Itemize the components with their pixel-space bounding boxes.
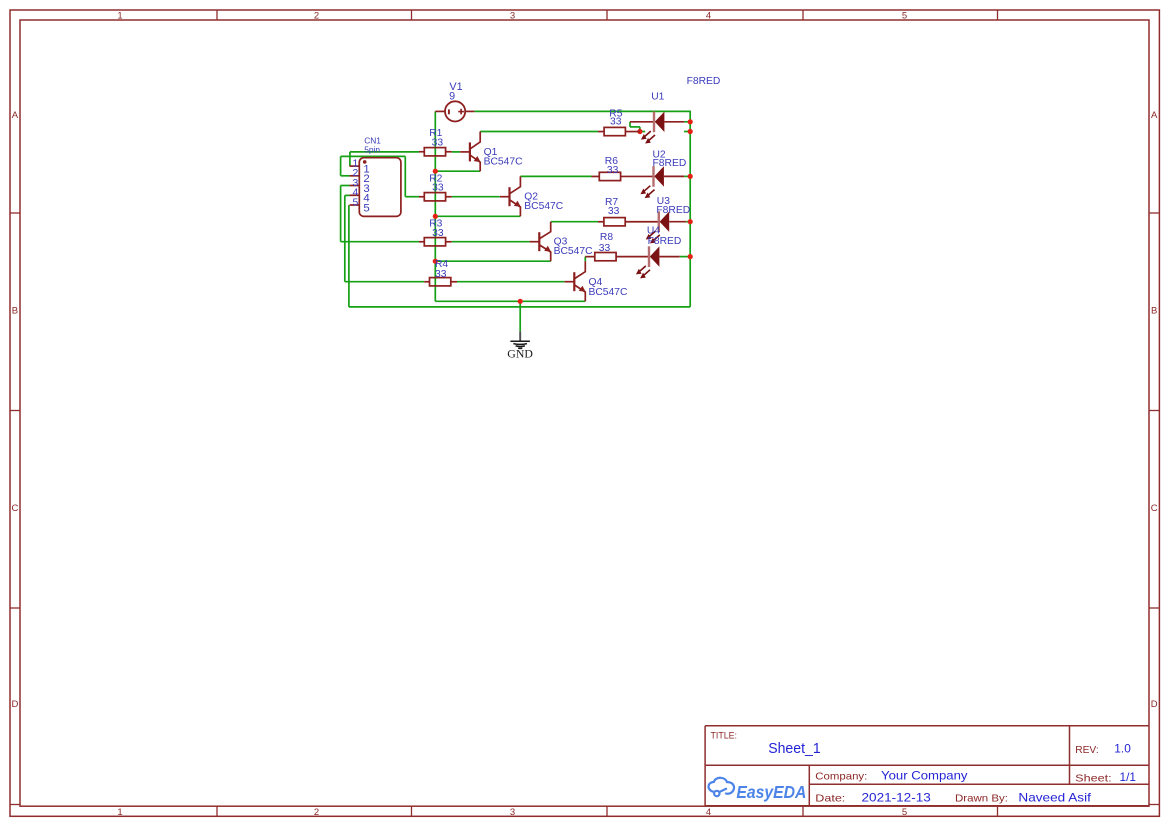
wire R3 to Q3 base: [452, 241, 530, 243]
LED U1 emission arrows: [642, 131, 651, 139]
svg-text:33: 33: [610, 116, 622, 127]
svg-text:U4: U4: [647, 225, 660, 236]
resistor R8 right pin: [616, 256, 649, 258]
ground symbol GND: [510, 331, 530, 348]
wire CN1 pin1 to R1: [350, 151, 419, 153]
wire Q3 collector to R7: [551, 221, 598, 223]
svg-text:F8RED: F8RED: [656, 205, 690, 216]
junction rail U4 anode: [688, 254, 693, 259]
wire CN1 pin2 top run over connector: [341, 155, 406, 157]
wire R4 to Q4 base: [457, 281, 565, 283]
svg-text:33: 33: [608, 206, 620, 217]
svg-text:3: 3: [510, 11, 515, 22]
wire U1 cathode zigzag to R5 node: [639, 127, 641, 132]
LED U2 emission arrows: [641, 186, 650, 194]
wire U1 anode green bit: [684, 121, 690, 123]
svg-text:1/1: 1/1: [1120, 771, 1137, 784]
svg-text:3: 3: [510, 807, 515, 818]
transistor Q4 base pin: [565, 281, 575, 283]
frame row ticks left/right: [10, 213, 1159, 805]
connector CN1 body: [359, 158, 401, 217]
wire U3 anode green bit: [686, 221, 690, 223]
svg-text:U1: U1: [651, 91, 664, 102]
resistor R3 body: [424, 238, 445, 246]
LED U2 triangle: [654, 166, 664, 186]
svg-text:4: 4: [706, 807, 711, 818]
wire pin2 drop to R2 row: [404, 156, 406, 196]
transistor Q1 collector: [470, 132, 480, 149]
wire CN1 pin1 riser: [349, 152, 351, 166]
svg-text:5: 5: [902, 11, 907, 22]
svg-text:1: 1: [117, 11, 122, 22]
transistor Q1 base pin: [460, 151, 470, 153]
junction rail U3 anode: [688, 219, 693, 224]
svg-text:5: 5: [363, 202, 369, 214]
svg-text:5pin: 5pin: [364, 145, 380, 155]
frame column ticks top/bottom: [217, 10, 998, 816]
transistor Q4 base bar: [573, 272, 575, 291]
svg-text:B: B: [1151, 306, 1157, 317]
svg-text:BC547C: BC547C: [589, 287, 628, 298]
resistor R3 left pin: [419, 241, 424, 243]
transistor Q3 collector: [540, 222, 551, 239]
wire U2 anode green bit: [684, 175, 690, 177]
transistor Q2 base bar: [508, 187, 510, 206]
wire main vertical rail from V1 minus through R1-R4: [434, 111, 436, 301]
resistor R4 left pin: [424, 281, 429, 283]
wire R5 node stub right: [640, 131, 645, 133]
wire right vertical rail: [689, 111, 691, 307]
junction rail U2 anode: [688, 174, 693, 179]
resistor R7 body: [604, 218, 625, 226]
LED U4 triangle: [650, 246, 660, 266]
LED U2 anode pin: [664, 175, 684, 177]
svg-text:F8RED: F8RED: [653, 158, 687, 169]
wire GND stem green part: [519, 301, 521, 331]
svg-text:1.0: 1.0: [1114, 743, 1131, 756]
svg-text:2021-12-13: 2021-12-13: [862, 791, 931, 804]
wire pin3 to R3: [341, 241, 419, 243]
transistor Q1 emitter arrow: [474, 156, 481, 162]
wire R1 to Q1 base: [452, 151, 460, 153]
svg-text:33: 33: [607, 165, 619, 176]
resistor R4 right pin: [451, 281, 457, 283]
svg-text:2: 2: [314, 807, 319, 818]
connector CN1 pin 2 stub: [350, 175, 360, 177]
junction rail U1 anode: [688, 119, 693, 124]
resistor R4 body: [430, 278, 451, 286]
svg-text:F8RED: F8RED: [687, 76, 721, 87]
svg-text:Sheet:: Sheet:: [1075, 773, 1112, 784]
svg-text:C: C: [1151, 503, 1158, 514]
resistor R3 right pin: [446, 241, 452, 243]
resistor R6 body: [599, 172, 620, 180]
svg-text:Sheet_1: Sheet_1: [768, 741, 821, 757]
svg-text:Your Company: Your Company: [881, 770, 968, 783]
junction rail R5 row: [688, 129, 693, 134]
transistor Q1 base bar: [469, 142, 471, 161]
resistor R8 body: [595, 253, 616, 261]
junction R3 node: [433, 214, 438, 219]
transistor Q4 emitter: [575, 285, 586, 301]
resistor R7 right pin: [625, 221, 659, 223]
wire CN1 pin5 drop to bottom rail: [348, 205, 350, 307]
connector CN1 pin1 marker dot: [363, 160, 367, 164]
wire CN1 pin4 stub left: [345, 194, 350, 196]
wire R2 to Q2 base: [452, 196, 500, 198]
LED U3 anode pin: [669, 221, 686, 223]
resistor R2 body: [424, 193, 445, 201]
wire U1 cathode zigzag across: [630, 126, 640, 128]
wire Q2 emitter to rail junction: [435, 215, 520, 217]
connector CN1 pin 4 stub: [350, 194, 360, 196]
transistor Q2 collector: [510, 176, 521, 193]
svg-text:BC547C: BC547C: [484, 156, 523, 167]
wire Q1 emitter to rail junction: [435, 170, 480, 172]
svg-text:33: 33: [599, 243, 611, 254]
svg-text:2: 2: [314, 11, 319, 22]
svg-text:Date:: Date:: [815, 793, 845, 804]
voltage source V1: [435, 101, 474, 121]
wire pin4 to R4: [345, 281, 424, 283]
svg-text:A: A: [12, 110, 19, 121]
svg-text:33: 33: [432, 183, 444, 194]
LED U1 anode pin: [664, 121, 684, 123]
wire Q3 emitter to rail junction: [435, 260, 550, 262]
svg-text:33: 33: [432, 228, 444, 239]
transistor Q1 emitter: [470, 155, 480, 171]
svg-text:33: 33: [432, 138, 444, 149]
svg-text:5: 5: [902, 807, 907, 818]
svg-text:4: 4: [706, 11, 711, 22]
svg-text:33: 33: [435, 269, 447, 280]
resistor R2 right pin: [446, 196, 452, 198]
resistor R8 left pin: [585, 256, 595, 258]
resistor R2 left pin: [419, 196, 424, 198]
connector CN1 pin 3 stub: [350, 185, 360, 187]
resistor R6 right pin: [621, 175, 654, 177]
resistor R6 left pin: [592, 175, 600, 177]
wire U4 anode green bit: [680, 256, 691, 258]
svg-text:Naveed Asif: Naveed Asif: [1018, 791, 1091, 804]
svg-text:EasyEDA: EasyEDA: [736, 782, 806, 802]
LED U4 cathode bar: [648, 246, 650, 267]
transistor Q3 emitter: [540, 245, 551, 261]
svg-text:REV:: REV:: [1075, 745, 1099, 756]
svg-text:9: 9: [449, 90, 455, 102]
LED U4 emission arrows: [637, 266, 646, 274]
transistor Q3 base pin: [530, 241, 540, 243]
svg-text:F8RED: F8RED: [648, 236, 682, 247]
wire CN1 pin4 drop: [344, 195, 346, 281]
transistor Q3 emitter arrow: [544, 246, 551, 252]
wire U1 cathode zigzag down: [629, 122, 631, 127]
wire V1 plus to top right corner: [474, 110, 690, 112]
svg-text:5: 5: [353, 197, 359, 208]
wire Q2 collector to R6: [520, 175, 591, 177]
svg-text:D: D: [11, 699, 18, 710]
wire Q4 emitter row to main rail: [435, 300, 585, 302]
resistor R5 body: [604, 127, 625, 135]
svg-text:C: C: [11, 503, 18, 514]
LED U2 cathode bar: [652, 166, 654, 187]
connector CN1 pin 1 stub: [350, 165, 360, 167]
svg-text:B: B: [12, 306, 18, 317]
resistor R1 left pin: [419, 151, 424, 153]
resistor R5 left pin: [598, 131, 604, 133]
wire stub into right rail at R5 row: [684, 131, 690, 133]
LED U4 anode pin: [659, 256, 679, 258]
svg-text:1: 1: [117, 807, 122, 818]
svg-text:TITLE:: TITLE:: [711, 730, 738, 740]
resistor R1 right pin: [446, 151, 452, 153]
wire pin2 into R2: [405, 196, 419, 198]
transistor Q3 base bar: [538, 232, 540, 251]
svg-text:BC547C: BC547C: [554, 246, 593, 257]
transistor Q2 emitter: [510, 200, 521, 216]
wire CN1 pin2 stub left: [341, 175, 350, 177]
svg-text:GND: GND: [507, 346, 533, 360]
resistor R1 body: [424, 148, 445, 156]
transistor Q2 base pin: [500, 196, 510, 198]
wire bottom rail: [349, 306, 690, 308]
svg-text:Drawn By:: Drawn By:: [955, 793, 1008, 804]
connector CN1 pin 5 stub: [350, 204, 360, 206]
wire Q1 collector to R5: [480, 131, 598, 133]
transistor Q2 emitter arrow: [514, 201, 521, 207]
svg-text:A: A: [1151, 110, 1158, 121]
junction GND node: [518, 299, 523, 304]
transistor Q4 emitter arrow: [579, 286, 586, 292]
wire CN1 pin3 drop: [340, 186, 342, 242]
LED U1 triangle: [655, 112, 665, 132]
svg-text:R8: R8: [600, 232, 613, 243]
svg-text:BC547C: BC547C: [524, 201, 563, 212]
LED U1 cathode bar: [653, 112, 655, 133]
resistor R7 left pin: [598, 221, 604, 223]
title block outline: [705, 726, 1149, 806]
LED U3 emission arrows: [647, 231, 656, 239]
EasyEDA logo cloud icon: [709, 778, 735, 796]
LED U3 cathode bar: [658, 211, 660, 232]
wire Q4 collector corner green: [584, 257, 586, 262]
transistor Q4 collector: [575, 261, 586, 278]
wire CN1 pin3 stub left: [341, 185, 350, 187]
wire CN1 pin2 riser: [340, 156, 342, 175]
junction R4 node: [433, 259, 438, 264]
junction R2 node: [433, 169, 438, 174]
resistor R5 right pin: [625, 131, 640, 133]
LED U1 cathode pin to zigzag: [630, 121, 654, 123]
svg-text:Company:: Company:: [815, 771, 867, 782]
LED U3 triangle: [660, 212, 670, 232]
svg-text:D: D: [1151, 699, 1158, 710]
junction R5/U1 cathode node: [637, 129, 642, 134]
